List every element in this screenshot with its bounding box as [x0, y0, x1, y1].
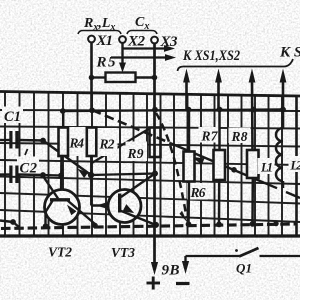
arrow up to K S (4) [282, 82, 285, 128]
junction dot rail row110 [152, 107, 158, 113]
resistor R2 [97, 128, 118, 156]
terminal X2 [119, 36, 126, 43]
terminal X3 [151, 37, 158, 44]
wire node diagonal to R9 [91, 129, 149, 164]
junction dot R5 left [89, 75, 95, 81]
junction dot rail mid [152, 171, 158, 177]
node junction dot (91,175) [88, 172, 94, 178]
junction dot L bus [273, 221, 278, 226]
dashed arc to R6 bottom [156, 113, 187, 217]
junction dot VT2 collector bus [43, 223, 49, 229]
wire X1 down to board [90, 43, 93, 111]
junction dot VT3 emitter bus [153, 222, 159, 228]
wire bus row y110 [63, 110, 284, 112]
common bus (dashed wire) [1, 224, 296, 229]
junction dot R4 lead row [58, 173, 64, 179]
junction dot R8 bus [250, 221, 256, 227]
junction dot C1 [40, 138, 46, 144]
wire node to rail [91, 174, 155, 176]
minus wire arrow [184, 256, 186, 262]
junction dot arrow right [280, 107, 286, 113]
long diagonal wire (dashed then solid) [92, 110, 170, 143]
plus sign [147, 282, 161, 285]
junction dot left edge wire [10, 219, 16, 225]
board bottom edge [0, 234, 300, 237]
junction dot R5 right [152, 75, 158, 81]
junction dot R8 top [251, 107, 257, 113]
junction dot R6 bus [186, 221, 192, 227]
arrow to K XS1 (upper) [123, 47, 167, 49]
junction dot R7 bus [216, 222, 222, 228]
brace under Rx,Lx [78, 31, 121, 35]
wire node down to VT3 base [91, 204, 119, 206]
wire X3 / 9V rail down through board [153, 44, 156, 263]
junction dot R4 top [60, 108, 66, 114]
brace under Cx [127, 31, 157, 35]
potentiometer wiper arrow onto R5 [119, 63, 126, 73]
capacitor C2 [17, 157, 39, 175]
wire C2 to R4 lead [43, 174, 61, 177]
wire C1 diagonal to node [43, 141, 91, 176]
arrow up to K S (1) [185, 82, 188, 110]
junction dot C2 [40, 172, 46, 178]
9V supply arrow [151, 262, 158, 275]
transistor VT3 [108, 190, 141, 223]
resistor R4 [68, 127, 87, 156]
board grid [0, 92, 300, 236]
resistor R8 [229, 128, 251, 144]
resistor R6 [187, 183, 208, 200]
junction dot on diagonal [231, 167, 237, 173]
wire X2 to arrow line [121, 43, 123, 64]
inductor L1 [258, 158, 275, 174]
board top edge [0, 92, 300, 97]
brace line to K S [178, 59, 294, 71]
inductor L2 label (clipped) [289, 156, 301, 172]
arrow up to K S (2) [217, 82, 220, 110]
junction dot R7 top [217, 107, 223, 113]
wire from left edge to bus [0, 221, 13, 223]
arrow to K XS2 (lower) [111, 56, 167, 58]
wire to switch Q1 [186, 255, 240, 257]
resistor R9 [126, 142, 148, 162]
resistor R7 [199, 127, 221, 143]
terminal X1 [88, 36, 95, 43]
switch Q1 [239, 248, 259, 257]
arrow up to K S (3) [251, 82, 254, 150]
board right edge [295, 96, 298, 236]
junction dot VT2 emitter bus [92, 223, 98, 229]
transistor VT2 [45, 190, 80, 225]
junction dot X1/R2 [89, 107, 95, 113]
junction dot R6 top [186, 107, 192, 113]
capacitor C1 [2, 107, 23, 124]
